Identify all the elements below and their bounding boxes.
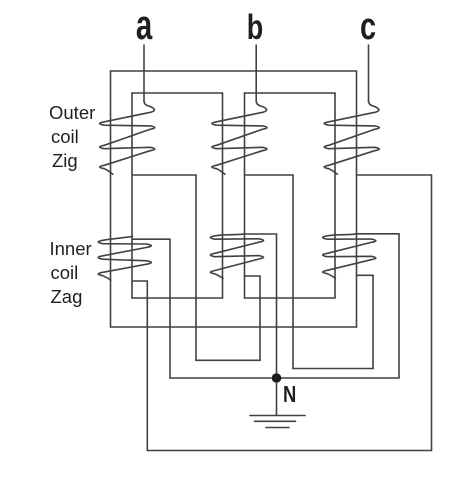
wire bus zig-b to zag-c [293,368,373,370]
wire zig-b bottom drop [292,175,294,369]
wire zag-a top stub [132,238,170,240]
wire phase b lead [255,45,257,102]
svg-text:Zag: Zag [51,286,83,307]
svg-text:coil: coil [51,262,79,283]
wire zag-c top stub [357,233,400,235]
svg-text:b: b [247,6,263,47]
wire bus zig-a to zag-b [196,359,260,361]
svg-text:coil: coil [51,126,79,147]
wire zag-a bottom stub [132,280,147,282]
svg-text:Zig: Zig [52,150,78,171]
wire phase c lead [368,45,370,102]
wire outer frame left (limb a outer) [110,71,112,327]
svg-text:N: N [283,382,296,407]
svg-text:Inner: Inner [50,238,92,259]
inner coil (zag) phase a [98,236,151,280]
wire rect a right [222,93,224,298]
wire zig-a bottom drop [195,175,197,360]
wire zag-c top drop [398,234,400,378]
wire zag-a top drop [169,239,171,378]
wire zig-c bottom drop [431,175,433,451]
svg-text:c: c [360,5,376,48]
wire phase a lead [143,45,145,102]
wire zag-b bottom drop [259,276,261,360]
ground symbol [250,416,305,428]
wire zag-c bottom drop [372,275,374,368]
wire rect b right [334,93,336,298]
wire zig-b bottom stub top [245,174,294,176]
label outer coil zig [49,102,95,171]
outer coil (zig) phase a [100,101,155,174]
inner coil (zag) phase b [210,234,263,279]
inner coil (zag) phase c [323,234,376,278]
wire rect b bottom [245,297,336,299]
wire rect a top [132,92,223,94]
wire zag-c bottom stub [357,274,374,276]
wire outer frame bottom [111,326,357,328]
wire outer frame right (limb c) [356,71,358,327]
node N (neutral junction) [272,373,282,383]
label inner coil zag [50,238,92,307]
svg-text:Outer: Outer [49,102,95,123]
wire rect b left (limb b) [244,93,246,298]
wire zig-a bottom stub top [132,174,196,176]
wire bus zig-c to zag-a [147,450,431,452]
wire zag-b top stub [245,233,277,235]
outer coil (zig) phase b [212,101,267,174]
wire rect b top [245,92,336,94]
wire rect a left (limb a) [131,93,133,298]
outer coil (zig) phase c [324,101,379,174]
wire N to ground [276,382,278,416]
wire neutral bus through N [170,377,399,379]
svg-text:a: a [136,1,153,49]
wire zag-a bottom drop [146,281,148,451]
wire zag-b top drop (to N) [276,234,278,378]
wire zig-c bottom stub top [357,174,432,176]
wire zag-b bottom stub [245,275,261,277]
wire outer frame top [111,70,357,72]
wire rect a bottom [132,297,223,299]
